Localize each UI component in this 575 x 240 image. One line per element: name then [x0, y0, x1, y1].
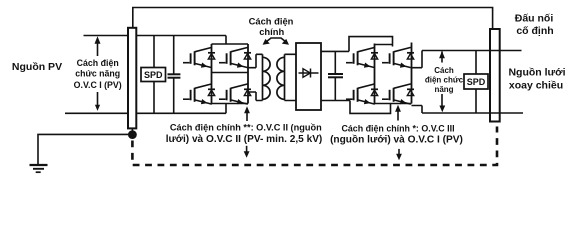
annotation arrow: AC functional insulation span — [441, 52, 443, 108]
terminal bar: AC fixed connection (right) — [490, 29, 500, 122]
wire: bridge output to transformer primary bottom — [248, 92, 263, 101]
wire: right bridge bottom rail — [375, 103, 412, 105]
annotation arrow: ** down toward enclosure — [246, 146, 248, 152]
svg-text:lưới) và O.V.C II (PV- min. 2,: lưới) và O.V.C II (PV- min. 2,5 kV) — [166, 134, 323, 145]
IGBT Q8 — [382, 84, 414, 104]
IGBT Q7 — [346, 84, 378, 104]
capacitor C1 (PV-side DC link) — [173, 36, 175, 75]
svg-text:năng: năng — [434, 85, 453, 94]
annotation arrow: main insulation pointing at transformer — [266, 38, 286, 42]
SPD2 box — [464, 74, 488, 89]
svg-text:SPD: SPD — [144, 70, 163, 80]
wire: left bridge top rail — [212, 43, 249, 45]
wire: left bridge drop to bottom bus — [225, 104, 227, 114]
wire: AC output bottom — [412, 106, 423, 114]
IGBT Q2 — [219, 47, 251, 67]
transformer T1 primary winding — [262, 54, 264, 100]
wire: rectifier output top lead — [321, 50, 349, 52]
svg-text:Nguồn PV: Nguồn PV — [12, 61, 62, 73]
svg-text:O.V.C I (PV): O.V.C I (PV) — [74, 80, 122, 90]
wire: secondary to rectifier — [285, 54, 297, 100]
wire: left bridge leg column 2 — [247, 44, 249, 104]
terminal bar: DC fixed connection (left) — [128, 28, 136, 129]
IGBT Q1 — [183, 47, 215, 67]
wire: SPD1 branch — [153, 36, 155, 114]
wire: SPD2 branch — [475, 51, 477, 114]
rectifier U1 box — [296, 43, 321, 110]
annotation arrow: ** up toward bridge — [246, 111, 248, 121]
wire: left bridge feed from top bus — [225, 36, 227, 45]
wire: AC top bus — [422, 50, 522, 52]
transformer T1 secondary winding — [284, 54, 286, 100]
wire: left bridge bottom rail — [212, 103, 249, 105]
wire: right bridge leg column 1 — [374, 44, 376, 104]
diode D9 inside rectifier — [299, 72, 319, 74]
wire: dashed enclosure bonding path — [132, 127, 497, 166]
IGBT Q5 — [346, 47, 378, 67]
wire: AC buses crossing terminal bar — [490, 51, 500, 114]
svg-text:Cách điện chính **: O.V.C II (: Cách điện chính **: O.V.C II (nguồn — [170, 123, 322, 133]
ground — [30, 164, 48, 166]
svg-text:Nguồn lưới: Nguồn lưới — [508, 67, 565, 79]
IGBT Q4 — [219, 84, 251, 104]
svg-text:xoay chiều: xoay chiều — [509, 80, 563, 92]
wire: rectifier output bottom lead — [321, 100, 350, 102]
svg-text:Cách điện chính *: O.V.C III: Cách điện chính *: O.V.C III — [341, 123, 454, 133]
wire: left bridge mid rail — [212, 72, 249, 74]
svg-text:Đấu nối: Đấu nối — [515, 13, 554, 25]
svg-text:Cách điện: Cách điện — [77, 58, 119, 68]
capacitor C2 (HV DC link) — [334, 51, 336, 74]
wire: AC output top — [412, 51, 423, 68]
wire: PV bottom bus — [65, 112, 226, 114]
annotation arrow: * up toward bridge — [397, 110, 399, 121]
IGBT Q3 — [183, 84, 215, 104]
wire: top interconnection from DC terminal bar to AC terminal bar — [133, 8, 493, 30]
IGBT Q6 — [382, 47, 414, 67]
svg-text:Cách: Cách — [434, 66, 454, 75]
node A: junction dot under DC terminal bar — [131, 128, 133, 131]
wire: right bridge raised top bus — [349, 37, 393, 52]
wire: PV top bus — [84, 35, 227, 37]
svg-text:cố định: cố định — [516, 25, 553, 37]
annotation arrow: * down toward enclosure — [398, 149, 400, 155]
svg-text:SPD: SPD — [467, 77, 486, 87]
svg-text:Cách điện: Cách điện — [249, 15, 294, 26]
annotation arrow: PV functional insulation span — [97, 41, 99, 107]
svg-text:chức năng: chức năng — [75, 69, 120, 79]
wire: right bridge bottom step — [350, 101, 391, 114]
wire: AC bottom bus — [422, 112, 523, 114]
wire: earth conductor — [38, 134, 129, 164]
wire: right bridge leg column 2 — [411, 43, 413, 104]
svg-text:(nguồn lưới) và O.V.C I (PV): (nguồn lưới) và O.V.C I (PV) — [330, 133, 463, 145]
SPD1 box — [141, 68, 166, 82]
svg-text:điện chức: điện chức — [425, 76, 464, 85]
wire: right bridge top rail — [375, 44, 393, 46]
wire: bridge output to transformer primary top — [248, 54, 263, 67]
svg-text:chính: chính — [259, 26, 284, 37]
wire: left bridge leg column 1 — [211, 44, 213, 104]
